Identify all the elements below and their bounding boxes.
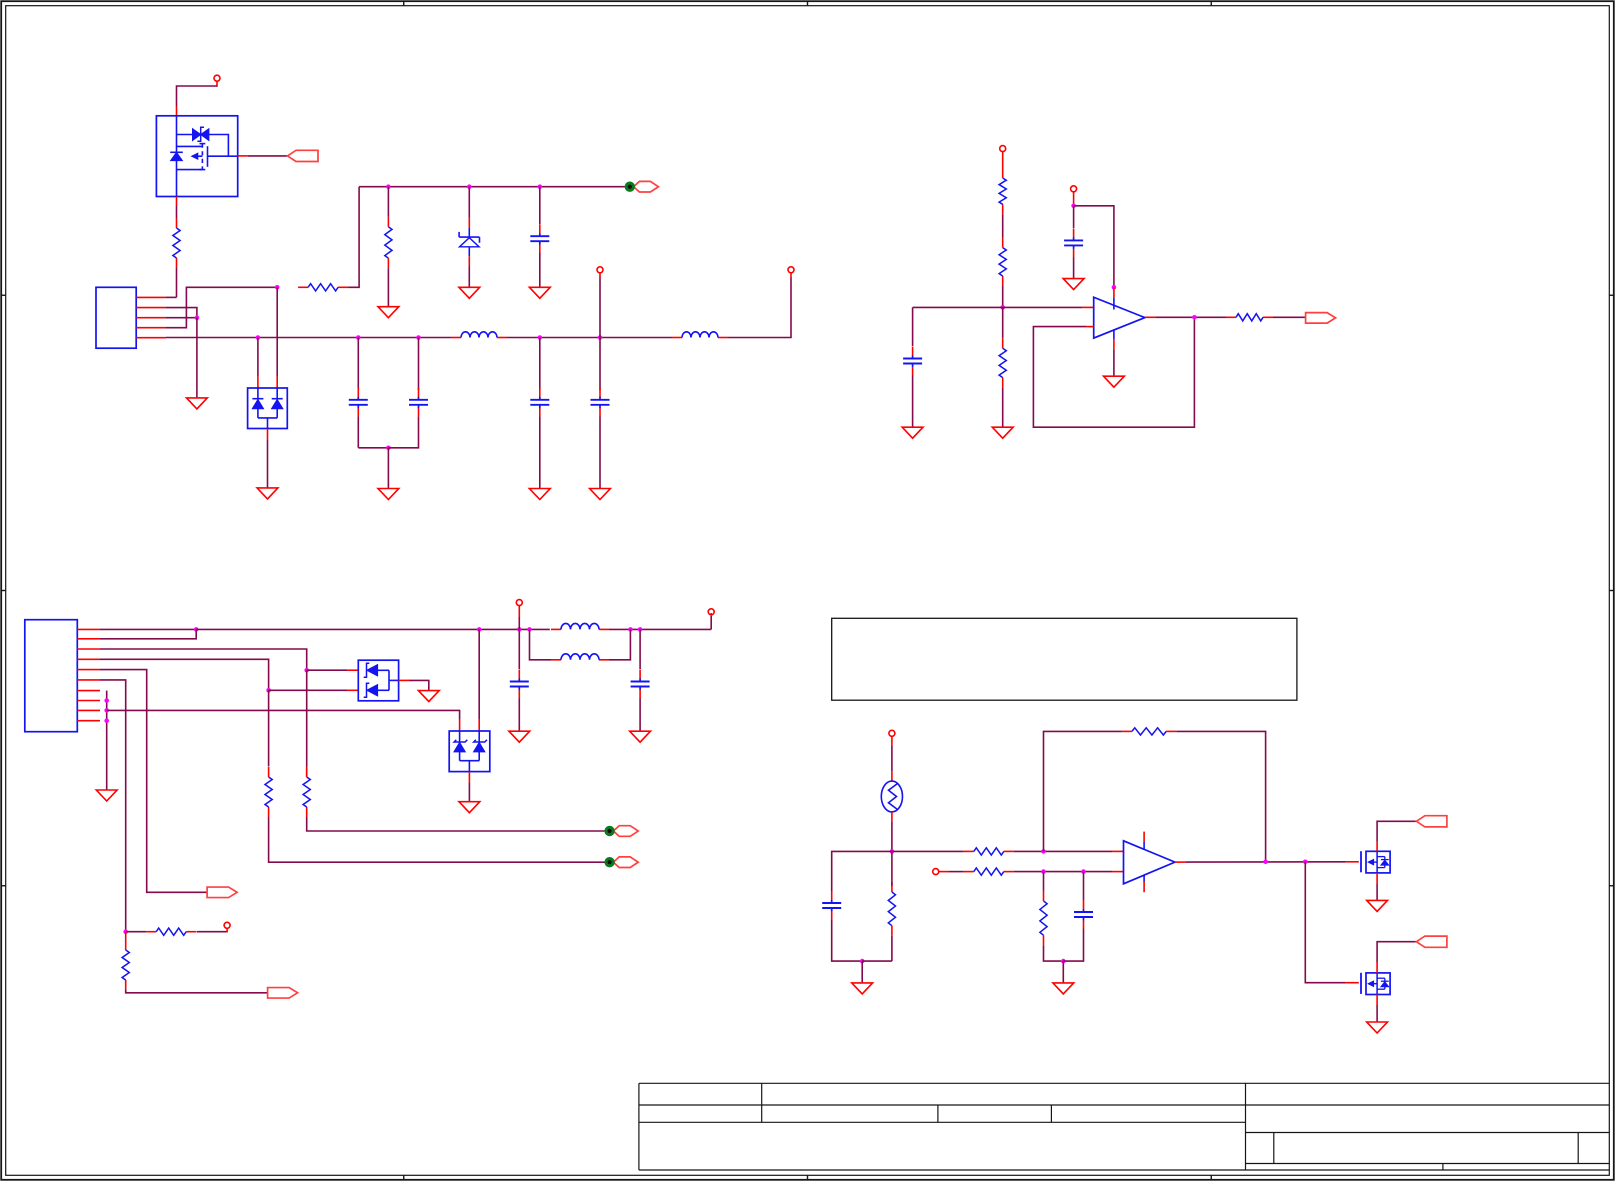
- node D-out-g: [1303, 860, 1308, 865]
- node C-choke-r: [628, 627, 633, 632]
- resistor R14: [964, 868, 1014, 875]
- pin P1 top input: [214, 75, 220, 87]
- wire Q1 gate stub: [1345, 861, 1359, 863]
- resistor R2: [298, 284, 348, 291]
- wire J2.9 to TVS: [107, 710, 460, 731]
- capacitor C8: [510, 670, 529, 699]
- pin P10: [933, 869, 949, 875]
- wire J1.4: [166, 287, 277, 327]
- wire C11 down: [1063, 929, 1083, 961]
- wire C3 down: [388, 417, 418, 448]
- resistor R6: [999, 338, 1006, 387]
- resistor R7: [1226, 314, 1273, 321]
- ground GND-B3: [902, 427, 923, 438]
- inductor L3 upper: [551, 623, 609, 629]
- offpage OUT2 green arrow: [604, 857, 638, 868]
- wire P5 to C6: [1073, 206, 1075, 228]
- capacitor C11: [1074, 900, 1093, 929]
- inductor L1: [451, 332, 507, 338]
- wire R12 upper: [891, 851, 893, 885]
- wire Q2 drain: [1377, 942, 1416, 973]
- wire choke lower right: [609, 629, 630, 659]
- wire node to D3 bot: [269, 689, 359, 691]
- wire D4 to ground: [468, 772, 470, 802]
- wire R8 to arrow1: [307, 817, 605, 831]
- wire fb up: [1044, 731, 1122, 851]
- J1 pin stubs: [136, 297, 166, 337]
- wire RT1 to node: [891, 812, 893, 852]
- wire R13 to opamp: [1014, 850, 1124, 852]
- wire C-R9 descent: [268, 690, 270, 766]
- wire R11 to arrow: [126, 990, 268, 993]
- opamp U2: [1094, 297, 1145, 338]
- wire R3 to ground: [387, 268, 389, 307]
- wire U2 output: [1145, 316, 1226, 318]
- node C-divider: [123, 929, 128, 934]
- wire R2 to rail riser: [348, 187, 359, 288]
- wire J1.2: [166, 308, 197, 318]
- wire P2 riser: [599, 273, 601, 338]
- resistor R15: [1122, 728, 1176, 735]
- capacitor C1: [530, 224, 549, 253]
- wire J1.3 to ground: [196, 318, 198, 398]
- ground GND-A2: [378, 307, 399, 318]
- node D-in1: [890, 849, 895, 854]
- wire rail to D1: [468, 187, 470, 228]
- node rail-D1: [467, 184, 472, 189]
- ground GND-C2: [630, 731, 651, 742]
- node C-g8: [104, 698, 109, 703]
- ground GND-B4: [1104, 376, 1125, 387]
- ground GND-C3: [418, 691, 439, 702]
- wire C10 down: [832, 920, 863, 961]
- ground GND-A3: [459, 287, 480, 298]
- dual diode D3: [358, 660, 398, 701]
- wire J2.2: [100, 629, 196, 638]
- ground GND-C4: [96, 790, 117, 801]
- resistor R16: [1040, 891, 1047, 945]
- node B-out: [1192, 315, 1197, 320]
- load switch U1: [156, 116, 237, 197]
- wire C2 down: [358, 417, 388, 448]
- wire C5 to ground: [599, 417, 601, 489]
- connector J1: [96, 287, 136, 348]
- wire R7 to offpage: [1273, 316, 1306, 318]
- ground GND-A5: [257, 488, 278, 499]
- mosfet Q2: [1361, 973, 1390, 995]
- wire choke right: [609, 628, 711, 630]
- resistor R12: [888, 882, 895, 936]
- pin P7: [708, 609, 714, 615]
- ground GND-A4: [529, 287, 550, 298]
- pin P5: [1071, 186, 1077, 206]
- capacitor C6: [1064, 228, 1083, 257]
- ground GND-D2: [1053, 983, 1074, 994]
- wire node to D3 top: [307, 669, 359, 671]
- opamp U2 vneg pin: [1113, 330, 1115, 376]
- opamp U2 supply pin: [1113, 287, 1115, 309]
- ground GND-A1: [187, 398, 208, 409]
- opamp U3: [1124, 841, 1175, 884]
- node B-in: [1000, 305, 1005, 310]
- wire R16 branch: [1043, 872, 1045, 891]
- resistor R5: [999, 238, 1006, 286]
- resistor R8: [303, 767, 310, 817]
- ground GND-C5: [459, 802, 480, 813]
- wire R4-R5: [1002, 214, 1004, 237]
- node C-cap2: [638, 627, 643, 632]
- node rail-R3: [386, 184, 391, 189]
- pin P9: [889, 730, 895, 746]
- wire R9 to arrow2: [269, 817, 605, 862]
- pin P8: [224, 922, 230, 928]
- resistor R11: [122, 940, 129, 990]
- wire gnd stub D2: [1062, 961, 1064, 983]
- zener D1: [459, 228, 479, 257]
- node C-g10: [104, 718, 109, 723]
- wire node to R6: [1002, 307, 1004, 338]
- rail VOUT: [359, 186, 625, 188]
- wire C11 branch: [1083, 872, 1085, 900]
- inductor L2: [672, 332, 728, 338]
- node C-choke-l: [527, 627, 532, 632]
- wire Q2 source: [1376, 995, 1378, 1023]
- node rail-C1: [538, 184, 543, 189]
- node D-rc2: [1081, 869, 1086, 874]
- wire P1 to U1: [177, 86, 218, 116]
- net arrow U1 gate: [238, 150, 318, 161]
- wire C-cap2 riser: [639, 629, 641, 669]
- net arrow Q2 drain: [1416, 936, 1447, 947]
- thermistor RT1: [881, 781, 902, 812]
- wire fb right: [1176, 731, 1265, 861]
- wire C9 to ground: [639, 698, 641, 731]
- wire R5 to node: [1002, 286, 1004, 307]
- wire C4 to ground: [539, 417, 541, 489]
- node C-12: [194, 627, 199, 632]
- ground GND-D3: [1367, 900, 1388, 911]
- wire J1.3: [166, 317, 197, 319]
- wire J2.6: [100, 680, 126, 932]
- wire J2.3: [100, 649, 307, 670]
- wire node to R10: [126, 931, 147, 933]
- capacitor C9: [631, 670, 650, 699]
- resistor R9: [265, 767, 272, 817]
- wire R1 to J1 pin1: [176, 268, 178, 297]
- resistor R1: [173, 218, 180, 268]
- wire bus to C4: [539, 338, 541, 391]
- wire R10 to P8: [197, 928, 227, 932]
- title block: [639, 1083, 1609, 1170]
- inductor L4 lower: [551, 654, 609, 660]
- node C-g9: [104, 708, 109, 713]
- wire bus right to P3: [728, 273, 791, 338]
- wire bus to C5: [599, 338, 601, 391]
- node C2C3 join: [386, 446, 391, 451]
- capacitor C5: [591, 388, 610, 417]
- node bus-C5: [598, 335, 603, 340]
- wire J2.4: [100, 659, 269, 690]
- capacitor C4: [530, 388, 549, 417]
- ground GND-D1: [852, 983, 873, 994]
- wire R14 to opamp: [1014, 871, 1124, 873]
- wire C3 riser: [418, 338, 420, 391]
- ground GND-D4: [1367, 1022, 1388, 1033]
- pin P6: [516, 600, 522, 630]
- wire bus mid: [507, 337, 672, 339]
- wire A-node to D2 pin2: [276, 287, 278, 388]
- wire rail to R3: [387, 187, 389, 217]
- resistor R10: [146, 928, 196, 935]
- node D-fb: [1041, 849, 1046, 854]
- wire rail to TVS: [478, 629, 480, 731]
- wire J1.1: [166, 296, 177, 298]
- wire C7 to ground: [912, 375, 914, 427]
- offpage arrow OUT3: [207, 887, 237, 898]
- TVS array D4: [449, 731, 490, 772]
- offpage arrow OUT-B: [1306, 313, 1336, 324]
- pin P4: [1000, 146, 1006, 168]
- ground GND-A7: [529, 489, 550, 500]
- wire U3 output: [1175, 861, 1345, 863]
- pin P3: [788, 267, 794, 273]
- capacitor C10: [822, 891, 841, 920]
- mosfet Q1: [1361, 851, 1390, 873]
- node bus-D2a: [256, 335, 261, 340]
- wire P9 to RT1: [891, 746, 893, 781]
- node bus-C3: [416, 335, 421, 340]
- wire R16 down: [1044, 945, 1064, 961]
- wire node to R11: [125, 932, 127, 940]
- node C-d3b: [266, 688, 271, 693]
- node D-gnd2: [1061, 959, 1066, 964]
- node C-tvs: [477, 627, 482, 632]
- wire rail to P7: [710, 613, 712, 629]
- wire Q1 drain: [1377, 821, 1416, 851]
- wire B input left cap: [912, 307, 914, 346]
- node bus-C2: [356, 335, 361, 340]
- node D-out-fb: [1263, 860, 1268, 865]
- node J1.3 junction: [195, 315, 200, 320]
- wire D-in1 to R13: [892, 850, 964, 852]
- opamp U3 supply stubs: [1143, 832, 1145, 893]
- net arrow Q1 drain: [1416, 816, 1447, 827]
- notes box: [832, 618, 1297, 700]
- connector J2: [25, 620, 78, 732]
- wire join to ground: [387, 448, 389, 489]
- offpage VOUT green arrow: [625, 181, 659, 192]
- wire J2.1 rail: [100, 628, 196, 630]
- offpage arrow OUT4: [268, 988, 298, 999]
- node D-gnd1: [860, 959, 865, 964]
- wire P10 to R14: [949, 871, 964, 873]
- resistor R4: [999, 168, 1006, 214]
- node C-cap: [517, 627, 522, 632]
- wire J2.7-10 ground bus: [106, 691, 108, 790]
- rail C main: [196, 628, 550, 630]
- node A (R2 left): [275, 285, 280, 290]
- ground GND-A8: [590, 489, 611, 500]
- node B-sup: [1112, 285, 1117, 290]
- ground GND-B1: [992, 427, 1013, 438]
- wire D left branch: [832, 851, 892, 891]
- wire C8 to ground: [518, 698, 520, 731]
- wire choke lower loop: [530, 629, 552, 659]
- resistor R13: [964, 848, 1014, 855]
- wire Q1 source: [1376, 873, 1378, 901]
- capacitor C2: [349, 388, 368, 417]
- wire C-cap riser: [518, 629, 520, 669]
- capacitor C3: [409, 388, 428, 417]
- wire U1 to R1: [176, 197, 178, 219]
- ground GND-A6: [378, 489, 399, 500]
- wire C1 to ground: [539, 253, 541, 287]
- wire bottom join: [862, 960, 892, 962]
- wire rail to C1: [539, 187, 541, 224]
- wire B input line: [913, 306, 1094, 308]
- offpage OUT1 green arrow: [604, 826, 638, 837]
- wire U2 feedback: [1033, 317, 1194, 427]
- wire supply to opamp: [1074, 206, 1114, 287]
- J2 pin stubs: [77, 629, 100, 720]
- wire C-R8 descent: [306, 670, 308, 776]
- wire D3 to ground: [399, 680, 429, 690]
- wire bus to D2 pin1: [257, 338, 259, 389]
- resistor R3: [385, 217, 392, 268]
- pin P2: [597, 267, 603, 273]
- ground GND-B2: [1063, 279, 1084, 290]
- wire gnd stub D1: [861, 961, 863, 983]
- node B-byp: [1071, 204, 1076, 209]
- wire J1.5 bus: [166, 337, 451, 339]
- node D-rc1: [1041, 869, 1046, 874]
- wire D2 to ground: [267, 429, 269, 488]
- wire C6 to ground: [1073, 257, 1075, 278]
- wire R12 lower: [891, 936, 893, 961]
- capacitor C7: [903, 347, 922, 376]
- wire bus to C2: [357, 338, 359, 391]
- node bus-C4: [538, 335, 543, 340]
- node C-d3a: [304, 668, 309, 673]
- wire J2.5: [100, 670, 207, 893]
- wire R6 to ground: [1002, 388, 1004, 428]
- dual diode D2: [248, 388, 288, 429]
- ground GND-C1: [509, 731, 530, 742]
- wire Q2 gate: [1305, 862, 1359, 983]
- wire D1 to ground: [468, 256, 470, 287]
